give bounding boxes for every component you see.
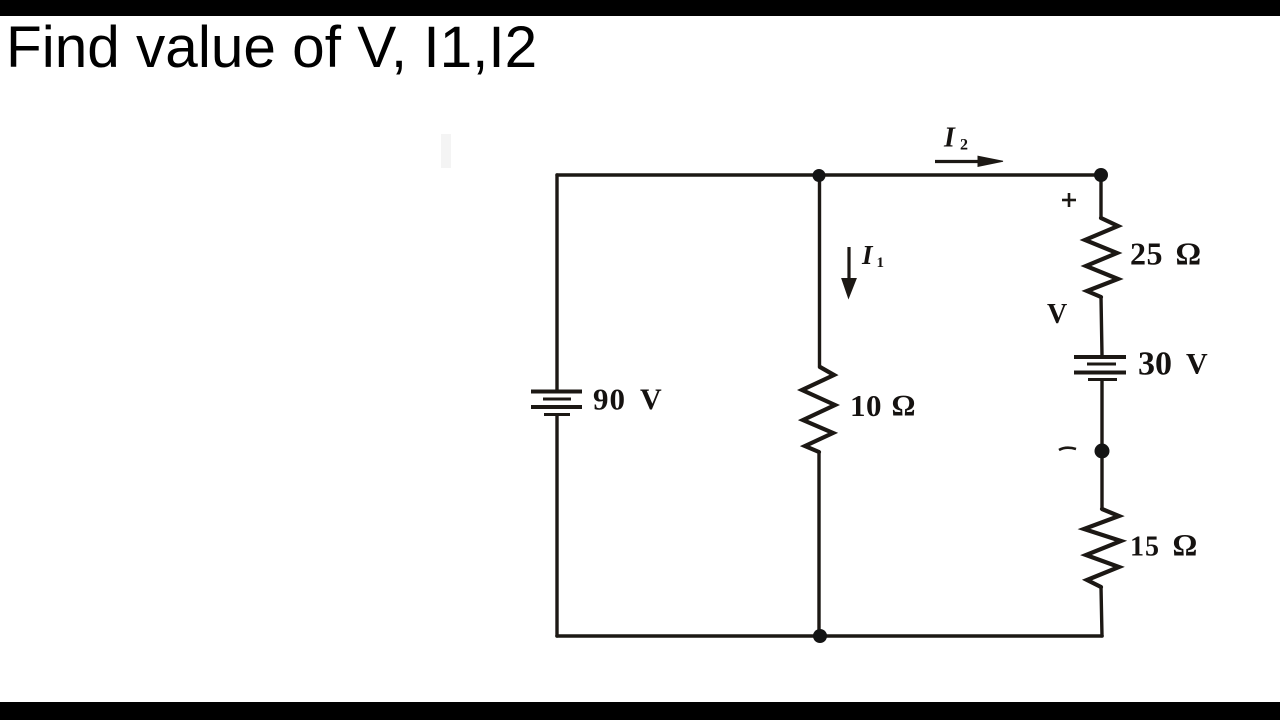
svg-text:30: 30 (1138, 346, 1172, 383)
node B (between 30V and 15Ω) (1095, 444, 1110, 459)
svg-text:V: V (640, 383, 662, 416)
wire middle vertical lower (817, 452, 820, 636)
title text (6, 14, 537, 81)
node junction top right (1094, 168, 1108, 182)
resistor R1 10Ω (802, 367, 835, 452)
svg-text:V: V (1186, 348, 1208, 381)
wire top horizontal (557, 173, 1101, 176)
svg-text:I: I (943, 123, 956, 154)
node junction bottom middle (813, 629, 827, 643)
wire bottom horizontal (557, 634, 1102, 638)
svg-text:2: 2 (960, 137, 968, 154)
node junction top middle (813, 169, 826, 182)
svg-text:15: 15 (1130, 532, 1160, 563)
minus sign (1059, 448, 1076, 450)
wire 30V battery to node B (1100, 381, 1103, 451)
svg-text:90: 90 (593, 382, 626, 417)
svg-text:10: 10 (850, 388, 882, 423)
plus sign (1062, 193, 1076, 207)
wire node B to 15Ω (1100, 451, 1103, 509)
current arrow I1 (842, 247, 856, 298)
wire right vertical top (1099, 175, 1102, 218)
svg-text:Ω: Ω (1176, 236, 1201, 272)
svg-text:V: V (1047, 299, 1067, 330)
resistor R2 25Ω (1085, 218, 1118, 297)
wire middle vertical upper (818, 175, 821, 367)
svg-text:I: I (861, 240, 874, 270)
scan paper edge artifact (441, 134, 451, 168)
current arrow I2 (935, 156, 1003, 166)
battery 90V (531, 392, 582, 415)
svg-text:Ω: Ω (1173, 528, 1197, 563)
top letterbox bar (0, 0, 1280, 16)
svg-text:25: 25 (1130, 236, 1163, 272)
wire 15Ω to bottom (1101, 587, 1102, 636)
resistor R3 15Ω (1084, 509, 1121, 587)
svg-text:1: 1 (877, 255, 885, 271)
bottom letterbox bar (0, 702, 1280, 720)
wire left vertical upper (555, 175, 558, 391)
wire 25Ω to 30V battery (1101, 297, 1102, 355)
wire left vertical lower (555, 415, 558, 636)
battery 30V (1074, 357, 1126, 380)
svg-text:Ω: Ω (892, 390, 915, 423)
